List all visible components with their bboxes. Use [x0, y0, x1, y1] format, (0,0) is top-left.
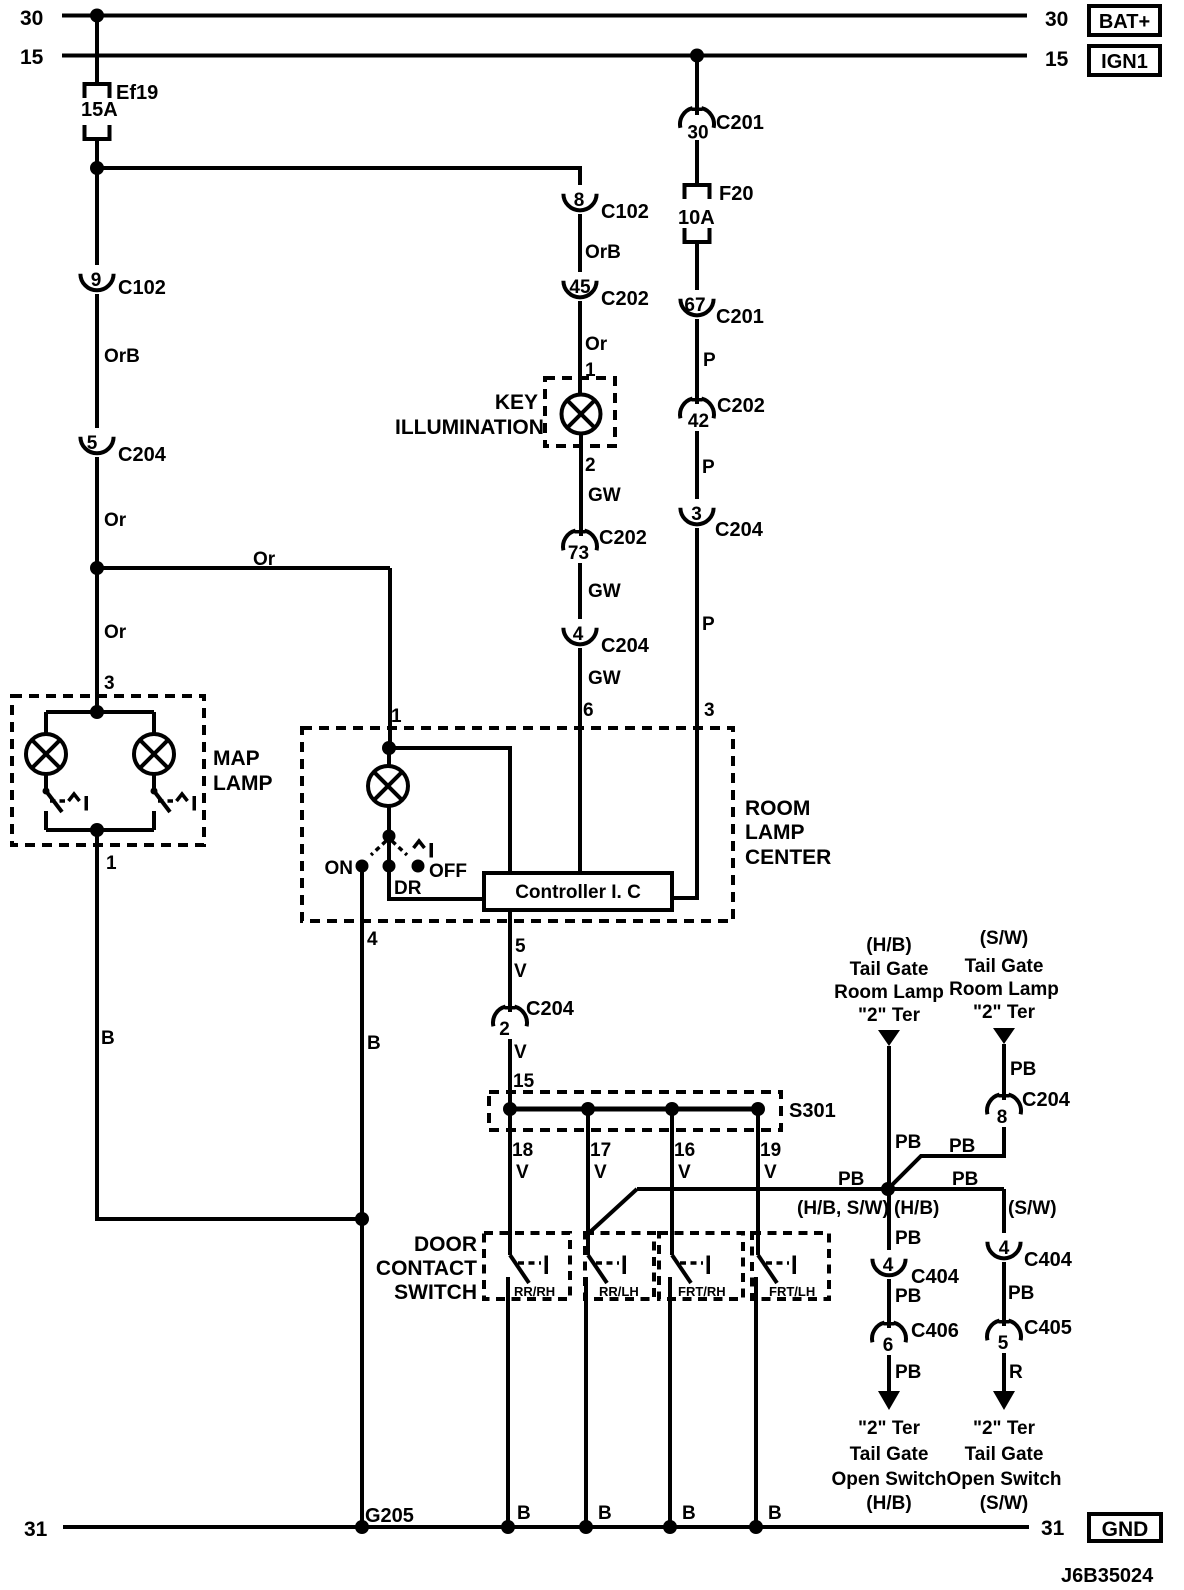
- svg-text:Room Lamp: Room Lamp: [949, 979, 1059, 1000]
- svg-text:PB: PB: [949, 1136, 975, 1157]
- svg-text:31: 31: [1041, 1517, 1065, 1540]
- svg-text:ILLUMINATION: ILLUMINATION: [395, 416, 544, 439]
- svg-text:RR/RH: RR/RH: [514, 1284, 555, 1299]
- svg-text:2: 2: [499, 1019, 510, 1040]
- svg-text:ROOM: ROOM: [745, 797, 810, 820]
- svg-text:Controller I. C: Controller I. C: [515, 882, 641, 903]
- svg-text:30: 30: [20, 7, 43, 30]
- svg-text:(H/B): (H/B): [894, 1198, 939, 1219]
- svg-text:Or: Or: [104, 622, 127, 643]
- svg-text:Or: Or: [104, 510, 127, 531]
- svg-text:RR/LH: RR/LH: [599, 1284, 639, 1299]
- svg-text:CONTACT: CONTACT: [376, 1257, 477, 1280]
- svg-text:(H/B, S/W): (H/B, S/W): [797, 1198, 889, 1219]
- svg-text:15: 15: [1045, 48, 1069, 71]
- svg-text:B: B: [101, 1028, 115, 1049]
- svg-text:PB: PB: [838, 1169, 864, 1190]
- svg-text:Or: Or: [585, 334, 608, 355]
- svg-text:18: 18: [512, 1140, 533, 1161]
- svg-text:DOOR: DOOR: [414, 1233, 477, 1256]
- svg-text:PB: PB: [895, 1228, 921, 1249]
- svg-text:42: 42: [688, 411, 709, 432]
- svg-text:45: 45: [569, 277, 591, 298]
- svg-text:GW: GW: [588, 485, 621, 506]
- svg-text:V: V: [764, 1162, 777, 1183]
- svg-text:OFF: OFF: [429, 861, 467, 882]
- svg-text:C102: C102: [118, 277, 166, 299]
- svg-text:10A: 10A: [678, 207, 715, 229]
- svg-text:V: V: [514, 1042, 527, 1063]
- svg-text:"2" Ter: "2" Ter: [973, 1418, 1036, 1439]
- svg-text:MAP: MAP: [213, 747, 260, 770]
- svg-text:C204: C204: [526, 998, 575, 1020]
- svg-text:16: 16: [674, 1140, 695, 1161]
- svg-text:1: 1: [106, 853, 117, 874]
- svg-text:"2" Ter: "2" Ter: [858, 1005, 921, 1026]
- svg-text:F20: F20: [719, 183, 753, 205]
- svg-text:C102: C102: [601, 201, 649, 223]
- svg-text:PB: PB: [895, 1286, 921, 1307]
- svg-text:B: B: [517, 1503, 531, 1524]
- svg-text:Open Switch: Open Switch: [831, 1469, 946, 1490]
- svg-text:3: 3: [104, 673, 115, 694]
- svg-text:5: 5: [87, 433, 98, 454]
- svg-text:(S/W): (S/W): [980, 1493, 1029, 1514]
- svg-text:LAMP: LAMP: [213, 772, 273, 795]
- svg-text:C204: C204: [715, 519, 764, 541]
- svg-text:C405: C405: [1024, 1317, 1072, 1339]
- svg-text:C406: C406: [911, 1320, 959, 1342]
- svg-text:GW: GW: [588, 668, 621, 689]
- svg-text:C202: C202: [717, 395, 765, 417]
- svg-text:C404: C404: [911, 1266, 960, 1288]
- svg-text:73: 73: [568, 543, 589, 564]
- svg-text:FRT/RH: FRT/RH: [678, 1284, 726, 1299]
- svg-text:30: 30: [1045, 8, 1068, 31]
- svg-text:V: V: [594, 1162, 607, 1183]
- svg-text:1: 1: [391, 706, 402, 727]
- svg-text:V: V: [678, 1162, 691, 1183]
- svg-text:Room Lamp: Room Lamp: [834, 982, 944, 1003]
- svg-text:4: 4: [883, 1255, 894, 1276]
- svg-text:LAMP: LAMP: [745, 821, 805, 844]
- svg-text:OrB: OrB: [585, 242, 621, 263]
- svg-text:G205: G205: [365, 1505, 414, 1527]
- svg-text:C404: C404: [1024, 1249, 1073, 1271]
- svg-text:PB: PB: [895, 1362, 921, 1383]
- svg-text:4: 4: [573, 624, 584, 645]
- svg-text:C204: C204: [601, 635, 650, 657]
- svg-text:4: 4: [367, 929, 378, 950]
- svg-text:P: P: [703, 350, 716, 371]
- svg-text:GND: GND: [1102, 1518, 1149, 1541]
- svg-text:15A: 15A: [81, 99, 118, 121]
- svg-text:8: 8: [574, 190, 585, 211]
- svg-text:"2" Ter: "2" Ter: [858, 1418, 921, 1439]
- svg-text:9: 9: [91, 270, 102, 291]
- svg-text:R: R: [1009, 1362, 1023, 1383]
- svg-text:DR: DR: [394, 878, 422, 899]
- svg-text:C204: C204: [118, 444, 167, 466]
- svg-text:C201: C201: [716, 112, 764, 134]
- svg-text:Tail Gate: Tail Gate: [965, 1444, 1044, 1465]
- svg-text:15: 15: [20, 46, 44, 69]
- svg-text:(S/W): (S/W): [980, 928, 1029, 949]
- svg-text:6: 6: [883, 1335, 894, 1356]
- svg-text:V: V: [516, 1162, 529, 1183]
- svg-text:P: P: [702, 614, 715, 635]
- svg-text:5: 5: [515, 936, 526, 957]
- svg-text:Tail Gate: Tail Gate: [850, 959, 929, 980]
- svg-text:Tail Gate: Tail Gate: [850, 1444, 929, 1465]
- svg-text:PB: PB: [1008, 1283, 1034, 1304]
- svg-text:Open Switch: Open Switch: [946, 1469, 1061, 1490]
- svg-text:BAT+: BAT+: [1099, 11, 1150, 33]
- svg-text:P: P: [702, 457, 715, 478]
- svg-text:2: 2: [585, 455, 596, 476]
- svg-text:OrB: OrB: [104, 346, 140, 367]
- svg-text:V: V: [514, 961, 527, 982]
- svg-text:IGN1: IGN1: [1101, 51, 1148, 73]
- svg-text:KEY: KEY: [495, 391, 538, 414]
- svg-text:GW: GW: [588, 581, 621, 602]
- svg-text:S301: S301: [789, 1100, 836, 1122]
- svg-text:4: 4: [999, 1238, 1010, 1259]
- svg-text:Tail Gate: Tail Gate: [965, 956, 1044, 977]
- svg-text:C201: C201: [716, 306, 764, 328]
- svg-text:Or: Or: [253, 549, 276, 570]
- svg-text:FRT/LH: FRT/LH: [769, 1284, 815, 1299]
- svg-text:67: 67: [684, 295, 705, 316]
- svg-text:19: 19: [760, 1140, 781, 1161]
- svg-text:6: 6: [583, 700, 594, 721]
- svg-text:PB: PB: [1010, 1059, 1036, 1080]
- svg-text:PB: PB: [952, 1169, 978, 1190]
- svg-text:(H/B): (H/B): [866, 1493, 911, 1514]
- svg-text:B: B: [598, 1503, 612, 1524]
- svg-text:8: 8: [997, 1107, 1008, 1128]
- svg-text:CENTER: CENTER: [745, 846, 831, 869]
- svg-text:SWITCH: SWITCH: [394, 1281, 477, 1304]
- svg-text:ON: ON: [325, 858, 354, 879]
- svg-text:C202: C202: [599, 527, 647, 549]
- svg-text:Ef19: Ef19: [116, 82, 158, 104]
- svg-text:(H/B): (H/B): [866, 935, 911, 956]
- svg-text:3: 3: [704, 700, 715, 721]
- svg-text:PB: PB: [895, 1132, 921, 1153]
- svg-text:B: B: [768, 1503, 782, 1524]
- svg-text:17: 17: [590, 1140, 611, 1161]
- svg-text:5: 5: [998, 1333, 1009, 1354]
- svg-text:C204: C204: [1022, 1089, 1071, 1111]
- svg-text:3: 3: [691, 504, 702, 525]
- svg-text:B: B: [367, 1033, 381, 1054]
- svg-text:(S/W): (S/W): [1008, 1198, 1057, 1219]
- svg-text:C202: C202: [601, 288, 649, 310]
- svg-text:J6B35024: J6B35024: [1061, 1565, 1154, 1587]
- svg-text:15: 15: [513, 1071, 535, 1092]
- svg-text:"2" Ter: "2" Ter: [973, 1002, 1036, 1023]
- svg-text:B: B: [682, 1503, 696, 1524]
- svg-text:31: 31: [24, 1518, 48, 1541]
